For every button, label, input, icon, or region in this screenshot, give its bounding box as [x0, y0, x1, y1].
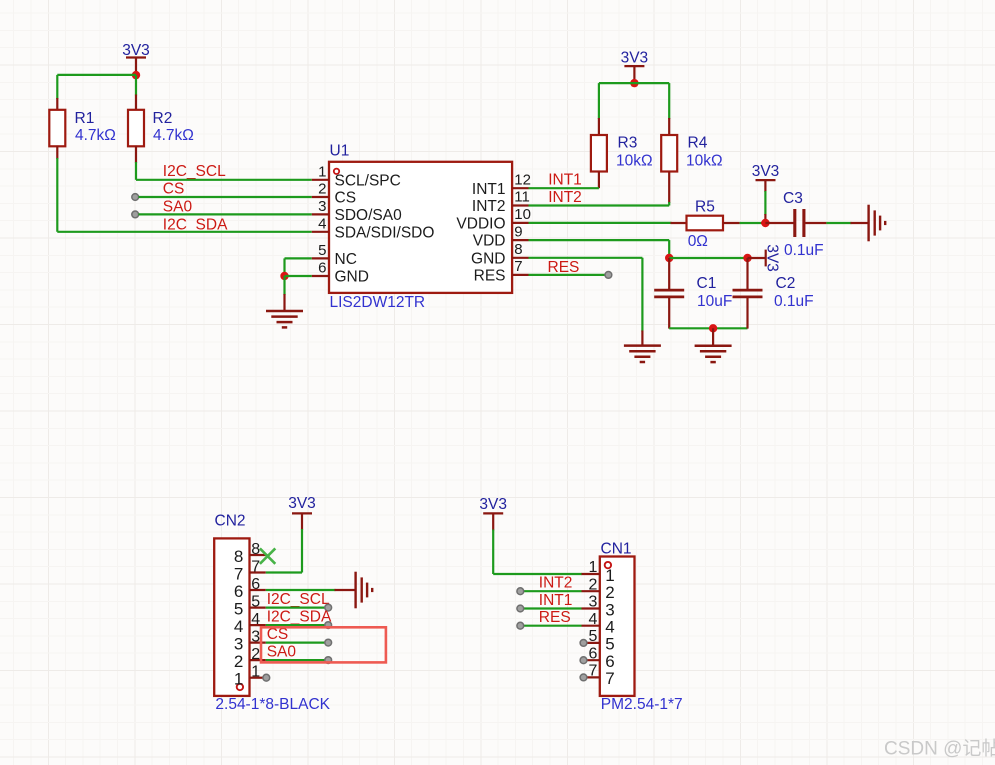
- U1 pin 9 VDD stub: [512, 239, 528, 241]
- svg-text:5: 5: [605, 635, 614, 654]
- svg-text:3V3: 3V3: [621, 50, 649, 67]
- svg-text:3: 3: [318, 198, 326, 215]
- svg-text:10kΩ: 10kΩ: [616, 153, 653, 170]
- wire 3V3 junction down to R2: [135, 75, 137, 95]
- junction R5/3V3/C3 node: [761, 219, 769, 227]
- node CN1 pin5 open end: [580, 640, 587, 647]
- junction 3V3 R3/R4 rail: [630, 79, 638, 87]
- junction node 3V3 / R1 / R2: [132, 71, 140, 79]
- U1 pin 10 VDDIO stub: [512, 222, 528, 224]
- wire 3V3 stem to junction: [135, 58, 137, 76]
- svg-text:9: 9: [514, 223, 522, 240]
- svg-text:1: 1: [318, 163, 326, 180]
- svg-text:SA0: SA0: [267, 643, 297, 660]
- node CS wire open end: [132, 194, 139, 201]
- svg-text:NC: NC: [335, 251, 357, 268]
- svg-text:CN2: CN2: [215, 513, 246, 530]
- svg-text:5: 5: [251, 593, 260, 610]
- CN2 pin 4 stub: [250, 624, 266, 626]
- svg-text:2: 2: [318, 181, 326, 198]
- node I2C_SDA open end: [325, 622, 332, 629]
- wire down to R1 top: [56, 75, 58, 99]
- svg-text:5: 5: [318, 242, 326, 259]
- CN1 pin 7 stub: [582, 676, 600, 678]
- svg-text:SCL/SPC: SCL/SPC: [335, 172, 401, 189]
- ground (right of C3): [869, 205, 886, 242]
- wire INT1 (pin 12 row): [529, 187, 599, 189]
- U1 pin 11 INT2 stub: [512, 204, 528, 206]
- svg-text:R4: R4: [688, 135, 708, 152]
- CN1 pin 3 stub: [582, 607, 600, 609]
- pin lead C1 bottom: [668, 297, 670, 329]
- svg-text:5: 5: [588, 628, 597, 645]
- svg-text:SA0: SA0: [163, 198, 193, 215]
- svg-text:LIS2DW12TR: LIS2DW12TR: [330, 294, 426, 311]
- svg-text:4: 4: [234, 617, 243, 636]
- power flag 3V3 (above CN1 wire): [479, 496, 507, 514]
- capacitor C1: [654, 290, 684, 297]
- wire I2C_SCL (pin 1 row): [136, 179, 312, 181]
- CN2 pin 3 stub: [250, 641, 266, 643]
- svg-text:C2: C2: [776, 275, 796, 292]
- pin lead ground stem: [712, 328, 714, 345]
- wire down to R3: [598, 83, 600, 119]
- svg-text:INT1: INT1: [472, 181, 506, 198]
- wire INT1 stub: [524, 607, 582, 609]
- wire down pin5 to pin6 row: [283, 258, 285, 276]
- svg-text:3V3: 3V3: [763, 244, 780, 272]
- svg-text:2.54-1*8-BLACK: 2.54-1*8-BLACK: [215, 696, 330, 713]
- junction bottom rail / ground: [709, 324, 717, 332]
- svg-text:INT2: INT2: [548, 189, 582, 206]
- svg-text:4: 4: [605, 618, 614, 637]
- wire CN2 pin 6 to ground: [266, 589, 336, 591]
- svg-text:5: 5: [234, 600, 243, 619]
- wire 3V3 rail to R1 (horizontal): [57, 74, 136, 76]
- wire 3V3 stem down: [492, 513, 494, 530]
- CN1 pin 1 stub: [582, 573, 600, 575]
- wire VDD (pin 9 row): [529, 239, 670, 241]
- wire R5 to 3V3 junction: [740, 222, 762, 224]
- svg-text:3: 3: [588, 594, 597, 611]
- svg-text:3: 3: [605, 600, 614, 619]
- U1 pin 5 NC stub: [312, 257, 329, 259]
- svg-text:12: 12: [514, 171, 531, 188]
- wire 3V3 stem: [633, 66, 635, 83]
- wire down to R4: [668, 83, 670, 119]
- ground (U1 NC/GND pins): [266, 311, 303, 327]
- node CN1 pin7 open end: [580, 674, 587, 681]
- pin lead C2 top: [746, 258, 748, 290]
- svg-text:0.1uF: 0.1uF: [784, 242, 824, 259]
- svg-text:6: 6: [605, 652, 614, 671]
- ground (U1 GND pin 8): [624, 346, 661, 362]
- wire R2 bottom to SCL row: [135, 162, 137, 180]
- CN1 pin 6 stub: [582, 659, 600, 661]
- U1 pin 8 GND stub: [512, 257, 528, 259]
- node SA0 wire open end: [132, 211, 139, 218]
- connector CN2 body: [214, 538, 249, 696]
- wire INT2 stub: [524, 590, 582, 592]
- svg-text:GND: GND: [471, 250, 505, 267]
- pin lead R3 bottom to INT1 row: [598, 172, 600, 189]
- svg-text:0.1uF: 0.1uF: [774, 293, 814, 310]
- U1 pin 3 SDO/SA0 stub: [312, 213, 329, 215]
- svg-text:RES: RES: [474, 268, 506, 285]
- svg-text:10uF: 10uF: [697, 293, 732, 310]
- CN2 pin 1 stub: [250, 677, 263, 679]
- svg-text:3V3: 3V3: [288, 495, 316, 512]
- svg-text:R1: R1: [75, 110, 95, 127]
- svg-text:RES: RES: [539, 609, 571, 626]
- svg-text:R3: R3: [618, 135, 638, 152]
- connector CN1 body: [600, 557, 635, 696]
- wire SA0 (pin 3 row): [139, 213, 312, 215]
- U1 pin 1 SCL/SPC stub: [312, 179, 329, 181]
- svg-text:2: 2: [605, 583, 614, 602]
- svg-text:INT2: INT2: [539, 575, 573, 592]
- svg-text:CSDN @记帖: CSDN @记帖: [884, 738, 995, 760]
- pin lead R3 top: [598, 118, 600, 136]
- wire SA0 stub: [266, 659, 325, 661]
- U1 pin 7 RES stub: [512, 274, 528, 276]
- pin lead ground stem: [641, 331, 643, 346]
- svg-text:6: 6: [588, 645, 597, 662]
- wire 3V3 stem down: [764, 180, 766, 192]
- capacitor C2: [733, 290, 763, 297]
- svg-text:10kΩ: 10kΩ: [686, 153, 723, 170]
- wire R4 to INT2 row: [668, 202, 670, 206]
- CN1 pin 2 stub: [582, 590, 600, 592]
- wire GND (pin 8 row): [529, 257, 643, 259]
- pin lead R2 bottom: [135, 146, 137, 163]
- svg-text:3: 3: [234, 635, 243, 654]
- resistor R4: [661, 135, 677, 172]
- wire GND pin 6: [285, 275, 312, 277]
- node CN1 pin6 open end: [580, 657, 587, 664]
- wire C1-C2 bottom rail: [669, 327, 747, 329]
- U1 pin 1 indicator circle: [334, 169, 339, 174]
- svg-text:2: 2: [251, 646, 260, 663]
- ground (C1/C2): [695, 346, 732, 362]
- pin lead R5 right: [723, 222, 740, 224]
- node INT1 open end: [517, 605, 524, 612]
- svg-text:11: 11: [514, 189, 530, 206]
- U1 pin 12 INT1 stub: [512, 187, 528, 189]
- wire RES (pin 7 row): [529, 274, 606, 276]
- pin lead C1 top: [668, 258, 670, 290]
- power flag 3V3 (rotated, right of C2): [763, 244, 780, 272]
- svg-text:7: 7: [605, 669, 614, 688]
- svg-text:U1: U1: [330, 143, 350, 160]
- svg-text:SDO/SA0: SDO/SA0: [335, 207, 403, 224]
- pin lead ground stem: [851, 222, 869, 224]
- op-amp U1 LIS2DW12TR body: [329, 162, 512, 293]
- pin lead R1 top: [56, 98, 58, 111]
- wire VDD rail C1-C2: [669, 257, 747, 259]
- svg-text:I2C_SDA: I2C_SDA: [267, 608, 332, 625]
- node RES open end: [517, 622, 524, 629]
- svg-text:VDD: VDD: [473, 233, 506, 250]
- svg-text:CS: CS: [163, 181, 185, 198]
- CN1 pin 5 stub: [582, 642, 600, 644]
- svg-text:3V3: 3V3: [479, 496, 507, 513]
- CN2 pin 7 stub: [250, 571, 266, 573]
- svg-text:2: 2: [588, 576, 597, 593]
- CN2 pin 2 stub: [250, 659, 266, 661]
- pin lead C3 left: [765, 222, 794, 224]
- wire CS stub: [266, 641, 325, 643]
- svg-text:4: 4: [318, 215, 326, 232]
- pin lead C3 right: [805, 222, 826, 224]
- wire INT2 (pin 11 row): [529, 204, 670, 206]
- U1 pin 2 CS stub: [312, 196, 329, 198]
- wire I2C_SDA (pin 4 row): [57, 231, 311, 233]
- svg-text:CN1: CN1: [601, 540, 632, 557]
- node CN2 pin1 open end: [263, 674, 270, 681]
- resistor R3: [591, 135, 607, 172]
- pin lead R5 left: [671, 222, 688, 224]
- svg-text:4: 4: [251, 611, 260, 628]
- svg-text:VDDIO: VDDIO: [456, 216, 505, 233]
- svg-text:PM2.54-1*7: PM2.54-1*7: [601, 696, 683, 713]
- svg-text:8: 8: [514, 241, 522, 258]
- pin lead ground stem: [283, 294, 285, 311]
- svg-text:7: 7: [251, 558, 260, 575]
- selection highlight box around CS/SA0: [261, 627, 386, 662]
- node INT2 open end: [517, 588, 524, 595]
- svg-text:1: 1: [588, 559, 597, 576]
- power flag 3V3 (at R5/C3): [752, 163, 780, 180]
- svg-text:I2C_SCL: I2C_SCL: [163, 163, 226, 180]
- wire R1 bottom to I2C_SDA row: [56, 158, 58, 232]
- CN2 pin 1 indicator circle: [237, 684, 243, 690]
- pin lead R1 bottom: [56, 146, 58, 159]
- svg-text:8: 8: [234, 547, 243, 566]
- junction NC/GND ground node: [280, 272, 288, 280]
- power flag 3V3 (top left, above R1/R2): [122, 42, 150, 59]
- svg-text:I2C_SCL: I2C_SCL: [267, 591, 330, 608]
- CN2 pin 5 stub: [250, 606, 266, 608]
- wire I2C_SDA stub: [266, 624, 325, 626]
- svg-text:INT1: INT1: [548, 172, 582, 189]
- svg-text:CS: CS: [335, 190, 357, 207]
- svg-text:8: 8: [251, 541, 260, 558]
- wire I2C_SCL stub: [266, 606, 325, 608]
- CN1 pin 4 stub: [582, 625, 600, 627]
- ground (CN2 pin 6): [356, 572, 373, 609]
- svg-text:INT1: INT1: [539, 592, 573, 609]
- svg-text:C1: C1: [697, 275, 717, 292]
- svg-text:7: 7: [588, 663, 597, 680]
- node RES wire open end: [605, 272, 612, 279]
- svg-text:4: 4: [588, 611, 597, 628]
- svg-text:6: 6: [251, 576, 260, 593]
- no-connect cross on CN2 pin 8: [260, 548, 275, 563]
- svg-text:6: 6: [234, 582, 243, 601]
- wire VDD down to C1 rail: [668, 240, 670, 258]
- svg-text:10: 10: [514, 206, 531, 223]
- wire GND down: [641, 258, 643, 332]
- wire CS (pin 2 row): [139, 196, 312, 198]
- pin lead R4 top: [668, 118, 670, 136]
- node I2C_SCL open end: [325, 604, 332, 611]
- svg-text:3V3: 3V3: [752, 163, 780, 180]
- svg-text:3: 3: [251, 628, 260, 645]
- CN2 pin 8 stub: [250, 554, 266, 556]
- wire C3 to ground: [826, 222, 851, 224]
- pin lead ground stem: [335, 589, 356, 591]
- wire 3V3 stem down: [301, 513, 303, 530]
- pin lead R2 top: [135, 95, 137, 111]
- svg-text:R5: R5: [695, 199, 715, 216]
- capacitor C3: [795, 209, 804, 237]
- svg-text:7: 7: [514, 258, 522, 275]
- CN1 pin 1 indicator circle: [605, 562, 611, 568]
- junction C2 top: [743, 254, 751, 262]
- svg-text:4.7kΩ: 4.7kΩ: [75, 127, 116, 144]
- svg-text:GND: GND: [335, 269, 369, 286]
- power flag 3V3 (above R3/R4): [621, 50, 649, 67]
- resistor R5: [687, 216, 724, 231]
- svg-text:4.7kΩ: 4.7kΩ: [153, 127, 194, 144]
- pin lead R4 bottom: [668, 172, 670, 204]
- wire 3V3 rail R3-R4: [599, 82, 669, 84]
- wire to CN2 pin 7: [266, 571, 302, 573]
- U1 pin 6 GND stub: [312, 275, 329, 277]
- wire NC pin 5 to ground branch: [285, 257, 312, 259]
- svg-text:SDA/SDI/SDO: SDA/SDI/SDO: [335, 224, 435, 241]
- svg-text:0Ω: 0Ω: [688, 233, 708, 250]
- wire C2 junction to rotated 3V3: [748, 257, 766, 259]
- svg-text:C3: C3: [783, 190, 803, 207]
- wire ground stem: [283, 276, 285, 295]
- svg-text:3V3: 3V3: [122, 42, 150, 59]
- svg-text:1: 1: [605, 566, 614, 585]
- svg-text:6: 6: [318, 260, 326, 277]
- wire VDDIO (pin 10 row) to R5: [529, 222, 672, 224]
- svg-text:R2: R2: [153, 110, 173, 127]
- power flag 3V3 (above CN2): [288, 495, 316, 513]
- node CS open end: [325, 639, 332, 646]
- resistor R2: [128, 110, 144, 147]
- wire 3V3 to CN1 pin 1: [493, 573, 582, 575]
- pin lead C2 bottom: [746, 297, 748, 329]
- svg-text:1: 1: [234, 670, 243, 689]
- svg-text:2: 2: [234, 652, 243, 671]
- U1 pin 4 SDA/SDI/SDO stub: [312, 231, 329, 233]
- wire RES stub: [524, 625, 582, 627]
- svg-text:INT2: INT2: [472, 198, 506, 215]
- svg-text:RES: RES: [548, 259, 580, 276]
- CN2 pin 6 stub: [250, 589, 266, 591]
- junction VDD / C1 top: [665, 254, 673, 262]
- svg-text:7: 7: [234, 565, 243, 584]
- resistor R1: [49, 110, 65, 147]
- node SA0 open end: [325, 657, 332, 664]
- svg-text:1: 1: [251, 664, 260, 681]
